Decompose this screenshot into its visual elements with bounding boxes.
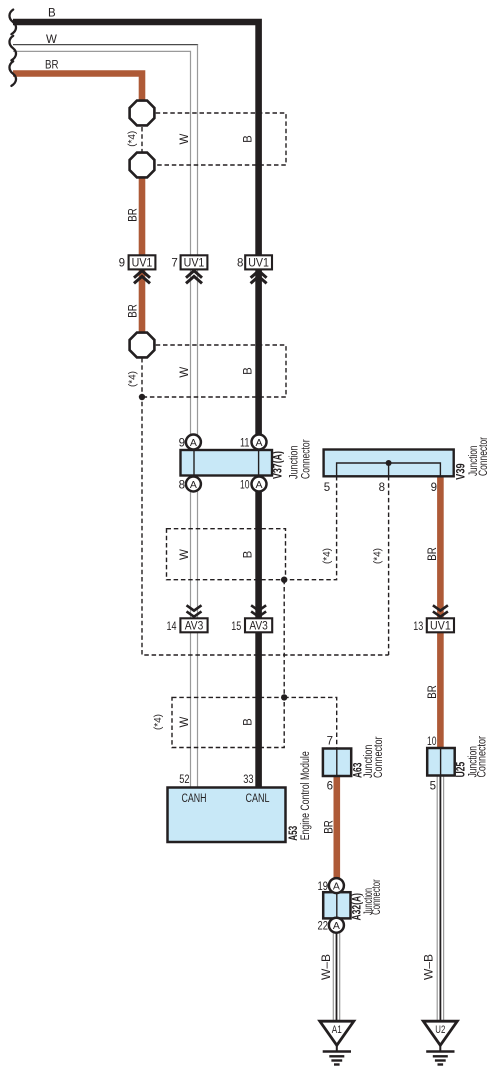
svg-text:6: 6 [327, 781, 333, 793]
svg-text:BR: BR [324, 820, 336, 834]
svg-text:5: 5 [430, 781, 436, 793]
svg-text:(*4): (*4) [153, 714, 164, 730]
svg-text:BR: BR [45, 60, 59, 72]
wire W-B (A32(A) pin 22 down to ground A1) [332, 932, 334, 1021]
svg-text:W: W [179, 549, 191, 560]
junction connector A32(A) [323, 892, 350, 918]
shield dashed line from V39 pin 5 down and left to junction at box 3 [284, 476, 336, 580]
svg-text:W: W [46, 34, 57, 46]
shield dashed line from V39 pin 8 down to bottom rail [388, 476, 390, 655]
svg-text:33: 33 [243, 772, 254, 786]
svg-text:Junction: Junction [288, 446, 300, 480]
junction connector U25 [427, 748, 455, 776]
svg-text:A32(A): A32(A) [350, 893, 364, 921]
svg-text:13: 13 [413, 621, 423, 633]
svg-text:A53: A53 [286, 826, 300, 841]
wire B (black, from top-left break, right then down to V37(A) pin 11) [13, 22, 259, 450]
svg-text:V39: V39 [454, 463, 468, 480]
wire W (white wire drawn as double line, from break, right then down to V37(A) pin 9) [13, 44, 198, 46]
V37(A) pin 8 terminal [186, 477, 201, 492]
svg-text:7: 7 [327, 736, 333, 748]
A32(A) pin 19 terminal [329, 878, 344, 893]
svg-text:B: B [243, 367, 255, 375]
svg-text:A: A [333, 920, 340, 932]
svg-text:11: 11 [240, 438, 250, 450]
connector 7 UV1 [181, 255, 208, 269]
svg-text:Engine Control Module: Engine Control Module [300, 751, 312, 840]
shield octagon 1 [130, 101, 155, 126]
junction dot inside V39 [386, 460, 392, 466]
svg-text:(*4): (*4) [322, 548, 333, 564]
svg-text:B: B [243, 135, 255, 143]
A32(A) pin 22 terminal [329, 918, 344, 933]
svg-text:U25: U25 [453, 762, 467, 778]
V37(A) pin 10 terminal [252, 477, 267, 492]
shield dashed box 4 (around W and B wires, above ECM) [172, 697, 284, 747]
connector 8 UV1 [245, 255, 272, 269]
chevron above 15 AV3 (pointing down) [251, 605, 266, 616]
svg-text:BR: BR [128, 304, 140, 318]
svg-text:W–B: W–B [424, 954, 436, 980]
chevron above 13 UV1 (pointing down) [433, 605, 448, 616]
svg-text:W: W [179, 133, 191, 144]
svg-text:52: 52 [179, 772, 190, 786]
svg-text:A: A [333, 881, 340, 893]
chevron above 14 AV3 (pointing down) [187, 605, 202, 616]
shield dashed box 3 (around W and B wires, middle) [167, 529, 286, 580]
svg-text:5: 5 [324, 482, 330, 494]
wire W (V37(A) pin 8 down to ECM CANH terminal 52) [190, 475, 192, 788]
svg-text:BR: BR [128, 208, 140, 222]
svg-text:W–B: W–B [321, 954, 333, 980]
svg-text:10: 10 [240, 480, 250, 492]
svg-text:(*4): (*4) [372, 548, 383, 564]
svg-text:8: 8 [237, 257, 243, 269]
junction dot (142,397) [139, 394, 145, 400]
shield dashed branch from box 4 corner to A63 pin 7 [284, 697, 337, 749]
shield octagon 2 [130, 153, 155, 178]
svg-text:W: W [179, 716, 191, 727]
svg-text:CANH: CANH [182, 793, 207, 805]
svg-text:B: B [243, 550, 255, 558]
wire BR (octagon 2 down to connector 9 UV1) [139, 177, 146, 268]
svg-text:AV3: AV3 [185, 621, 204, 633]
svg-text:15: 15 [231, 621, 241, 633]
wire BR (brown, from break, right then down to shield octagon 1) [13, 74, 142, 103]
svg-text:(*4): (*4) [128, 371, 139, 387]
svg-text:8: 8 [379, 482, 385, 494]
wire BR (below 9 UV1 down to shield octagon 3) [139, 269, 146, 333]
chevron below 7 UV1 (pointing up) [186, 271, 202, 284]
svg-text:UV1: UV1 [430, 621, 451, 633]
junction connector V39 [324, 450, 454, 477]
junction connector V37(A) [181, 450, 273, 476]
chevron below 8 UV1 (pointing up) [251, 271, 267, 284]
chevron below 9 UV1 (pointing up) [134, 271, 150, 284]
svg-text:V37(A): V37(A) [270, 451, 284, 479]
svg-text:AV3: AV3 [249, 621, 268, 633]
svg-text:UV1: UV1 [248, 257, 269, 269]
V37(A) pin 11 terminal [252, 435, 267, 450]
svg-text:Connector: Connector [477, 736, 489, 778]
connector 13 UV1 [427, 618, 454, 632]
engine control module A53 [168, 788, 286, 843]
svg-text:UV1: UV1 [184, 257, 205, 269]
junction dot (284,580) [281, 577, 287, 583]
wire BR (right branch, V39 pin 9 down through 13 UV1 to U25 pin 10) [437, 476, 444, 749]
svg-text:10: 10 [427, 736, 437, 748]
shield dashed box 2 (around W and B wires at octagon 3) [142, 345, 286, 397]
svg-text:7: 7 [171, 257, 177, 269]
svg-text:(*4): (*4) [127, 131, 138, 147]
svg-text:14: 14 [167, 621, 177, 633]
connector 9 UV1 [129, 255, 156, 269]
break symbol on wire W [9, 36, 16, 61]
svg-text:A: A [190, 437, 197, 449]
shield dashed drain line (octagon 3 down left side to bottom rail) [142, 358, 389, 655]
svg-text:A: A [255, 479, 262, 491]
svg-text:Connector: Connector [373, 736, 385, 778]
shield octagon 3 [130, 333, 155, 358]
svg-text:8: 8 [179, 480, 185, 492]
connector 14 AV3 [180, 618, 207, 632]
svg-text:Connector: Connector [300, 439, 312, 479]
svg-text:CANL: CANL [246, 793, 270, 805]
shield dashed box 1 (around W and B wires, top) [156, 113, 286, 165]
V37(A) pin 9 terminal [186, 435, 201, 450]
svg-text:9: 9 [431, 482, 437, 494]
wire BR (A63 pin 6 down to A32(A) pin 19) [333, 776, 340, 892]
break symbol on wire B [9, 10, 16, 35]
svg-text:Connector: Connector [371, 879, 383, 915]
break symbol on wire BR [9, 61, 16, 86]
svg-text:9: 9 [119, 257, 125, 269]
shield dashed link between octagon 1 and octagon 2 [141, 127, 143, 152]
svg-text:22: 22 [318, 921, 329, 933]
svg-text:W: W [179, 367, 191, 378]
svg-text:UV1: UV1 [132, 257, 153, 269]
junction dot (284,697) [281, 694, 287, 700]
svg-text:19: 19 [318, 881, 329, 893]
wire B (black, V37(A) pin 10 down to ECM CANL terminal 33) [255, 475, 262, 788]
ground U2 [423, 1021, 457, 1045]
svg-text:BR: BR [427, 547, 439, 561]
svg-text:A: A [255, 437, 262, 449]
svg-text:A1: A1 [332, 1024, 342, 1036]
svg-text:B: B [48, 8, 56, 20]
wire W-B (U25 pin 5 down to ground U2) [436, 776, 438, 1022]
svg-text:9: 9 [179, 438, 185, 450]
junction connector A63 [323, 749, 351, 777]
svg-text:A: A [190, 479, 197, 491]
shield dashed link from box 3 corner down to box 4 corner [283, 580, 285, 698]
svg-text:Connector: Connector [478, 437, 490, 476]
connector 15 AV3 [245, 618, 272, 632]
svg-text:U2: U2 [435, 1024, 445, 1036]
ground A1 [320, 1021, 354, 1045]
svg-text:BR: BR [427, 685, 439, 699]
svg-text:B: B [243, 718, 255, 726]
